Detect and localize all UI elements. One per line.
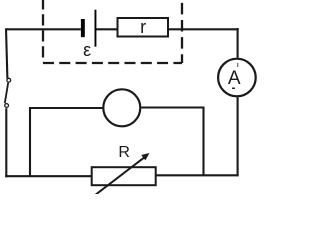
svg-text:ε: ε [83, 40, 91, 60]
svg-text:A: A [228, 68, 241, 89]
rheostat R arrow shaft [95, 157, 145, 195]
wire left vertical lower [5, 108, 7, 177]
ammeter minus mark [232, 88, 235, 90]
wire left vertical upper [6, 29, 7, 79]
svg-text:R: R [118, 144, 130, 161]
battery cell negative plate (thick short) [81, 19, 85, 37]
switch S top terminal [7, 78, 11, 82]
switch S bottom terminal [5, 104, 9, 108]
wire voltmeter-loop right vertical [202, 107, 204, 176]
wire top-left horizontal [5, 28, 81, 30]
battery cell positive plate (thin long) [95, 10, 97, 47]
wire voltmeter-loop right horizontal [141, 106, 204, 108]
wire resistor to ammeter horizontal [168, 28, 239, 30]
dashed box bottom edge [43, 62, 182, 64]
wire ammeter upper vertical [237, 28, 239, 58]
wire voltmeter-loop left horizontal [29, 107, 103, 109]
voltmeter V (unlabeled meter circle) [103, 89, 140, 126]
rheostat R box [92, 167, 156, 185]
ammeter A circle [218, 59, 256, 97]
switch S lever [5, 83, 8, 104]
wire ammeter lower vertical [237, 97, 239, 176]
rheostat R arrowhead [141, 153, 149, 160]
wire bottom-left horizontal [5, 175, 92, 177]
dashed box right edge [181, 0, 183, 63]
wire bottom-right horizontal [156, 174, 239, 176]
resistor r box [118, 18, 169, 37]
wire battery to resistor [96, 28, 118, 30]
svg-text:r: r [140, 17, 146, 37]
ammeter plus mark [237, 63, 238, 64]
dashed box left edge [42, 0, 44, 63]
wire voltmeter-loop left vertical [29, 108, 31, 177]
